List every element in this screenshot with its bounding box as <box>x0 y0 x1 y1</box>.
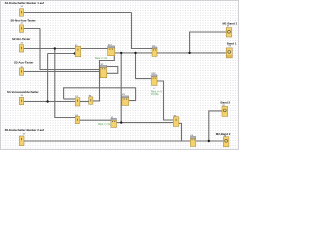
switch S5 <box>19 136 24 146</box>
wire drop x47 <box>47 54 49 102</box>
contact K1 (A) <box>75 46 81 56</box>
wire P3 row <box>80 119 111 121</box>
svg-text:S2-Ein-Taster: S2-Ein-Taster <box>12 37 31 41</box>
svg-text:S1-Endschalter Bunker 1 auf: S1-Endschalter Bunker 1 auf <box>5 1 44 5</box>
switch S4 <box>19 97 23 104</box>
switch S2 <box>19 45 23 52</box>
node K1 row dot2 <box>134 52 136 54</box>
contact P3 <box>75 116 79 123</box>
node S2/S3 dot <box>54 47 56 49</box>
wire riser to M1 <box>190 32 227 53</box>
relay B timer <box>108 46 115 56</box>
lamp P2 <box>89 97 93 104</box>
relay Q timer <box>111 118 117 127</box>
wire Not-Aus drop <box>40 29 100 70</box>
green annotations <box>95 57 162 126</box>
svg-text:S4-Vorauswahlschalter: S4-Vorauswahlschalter <box>7 90 39 94</box>
wire S0 Not-Aus out <box>24 28 41 30</box>
wire S4 row <box>24 101 76 103</box>
junction dots <box>46 47 210 142</box>
wire S1 drop to K1 coil <box>132 13 153 49</box>
wire drop x54 <box>55 49 75 118</box>
wire drop x135 to K2 coil <box>136 53 152 79</box>
svg-text:Rest t = 0s: Rest t = 0s <box>95 57 108 60</box>
relay L K3 <box>122 96 129 106</box>
switch S1 <box>19 9 23 16</box>
wire P1-P2 link <box>80 101 89 103</box>
tiny component ids <box>21 6 232 137</box>
node Band1 dot <box>188 52 190 54</box>
motor M2 <box>223 137 229 147</box>
wire riser to Band2 <box>209 111 222 141</box>
wire S5 row <box>24 140 190 142</box>
node S4 row dot <box>46 100 48 102</box>
wire a upper feedback row <box>64 98 76 100</box>
relay E K1 <box>152 47 157 56</box>
wire R to J <box>196 140 224 142</box>
svg-text:Rest t = 0s: Rest t = 0s <box>98 123 111 126</box>
node S5 row dot <box>208 140 210 142</box>
wire M right drop <box>179 123 182 141</box>
node K1 row dot1 <box>120 52 122 54</box>
canvas background <box>0 0 239 150</box>
svg-text:15.00s: 15.00s <box>151 93 159 96</box>
wire P2 riser to B bottom <box>93 56 114 101</box>
contact M <box>173 117 179 127</box>
svg-text:M1-Band 1: M1-Band 1 <box>223 21 238 25</box>
wire C loop <box>107 67 118 74</box>
wire S1 row top <box>24 12 132 14</box>
switch S3 <box>19 68 23 75</box>
svg-text:M: M <box>224 135 226 137</box>
wire drop x121 <box>120 53 122 123</box>
lamp Band 2 <box>222 106 228 116</box>
lamp Band 1 <box>226 48 232 58</box>
wire K1 row <box>115 52 152 54</box>
node A lower dot <box>74 52 76 54</box>
wire row to contact M lower <box>121 122 173 124</box>
svg-text:M: M <box>227 25 229 27</box>
relay C K2 <box>100 65 107 77</box>
wire A to B <box>81 48 108 50</box>
wire S3 row <box>24 71 101 73</box>
node M row dot <box>120 121 122 123</box>
svg-text:Band 2: Band 2 <box>221 101 231 105</box>
wire K2 coil right corner <box>157 81 173 120</box>
svg-text:S5-Endschalter Bunker 2 auf: S5-Endschalter Bunker 2 auf <box>5 128 44 132</box>
svg-text:S0-Not-Aus-Taster: S0-Not-Aus-Taster <box>11 18 37 22</box>
svg-text:S3-Aus-Taster: S3-Aus-Taster <box>14 61 34 65</box>
motor M1 <box>226 28 232 37</box>
switch S0 Not-Aus <box>19 25 23 32</box>
wire K1 row right <box>157 52 226 54</box>
wire S2 row <box>24 48 76 50</box>
wire Q out <box>117 122 122 124</box>
wire a riser and span <box>64 88 136 101</box>
relay R <box>190 136 195 146</box>
relay N timer K2 <box>152 75 158 86</box>
wire A lower left <box>48 53 75 55</box>
contact P1 <box>75 98 80 106</box>
